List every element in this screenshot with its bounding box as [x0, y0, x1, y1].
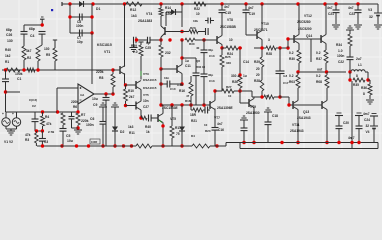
- svg-text:C5: C5: [66, 134, 70, 138]
- svg-text:R40: R40: [5, 48, 11, 52]
- label R13: [189, 42, 200, 50]
- svg-text:3: 3: [268, 38, 270, 42]
- label R3: [25, 133, 31, 142]
- junction zobel out: [348, 70, 351, 73]
- transistor VT9: [249, 99, 254, 108]
- label VT4: [138, 12, 152, 23]
- label R31: [289, 74, 295, 84]
- junction R7 bottom: [76, 126, 79, 129]
- label C20: [343, 121, 349, 125]
- label C24: [363, 112, 370, 122]
- svg-text:Q14: Q14: [306, 34, 312, 38]
- svg-text:C20: C20: [343, 121, 349, 125]
- svg-text:2k7: 2k7: [129, 95, 135, 99]
- junction C5 bottom: [60, 144, 63, 147]
- wire VT11 collector: [297, 110, 299, 143]
- resistor R2 vertical: [36, 48, 40, 62]
- svg-text:R22: R22: [194, 7, 200, 11]
- junction lower base: [287, 103, 290, 106]
- op-amp U1: [78, 84, 94, 104]
- junction em x279: [278, 46, 281, 49]
- label R22: [194, 7, 200, 16]
- resistor R1 vertical: [22, 46, 26, 60]
- wire op-amp +in drop: [56, 88, 58, 112]
- svg-text:10n: 10n: [164, 76, 169, 80]
- junction VT11 bottom: [296, 141, 299, 144]
- label C19: [248, 6, 255, 16]
- resistor R26: [238, 75, 242, 91]
- svg-text:100n: 100n: [76, 24, 83, 28]
- junction D1 anode: [68, 2, 71, 5]
- resistor R31: [296, 72, 300, 101]
- transistor VT1: [120, 66, 125, 75]
- svg-text:+: +: [2, 112, 4, 116]
- label R21: [190, 113, 197, 123]
- capacitor C9: [103, 94, 110, 146]
- resistor R21: [193, 108, 203, 112]
- svg-text:2SC5200: 2SC5200: [298, 27, 312, 31]
- junction comp left: [135, 38, 138, 41]
- wire D3 right leg: [181, 4, 183, 27]
- label V4: [366, 124, 370, 134]
- label R6: [71, 100, 78, 109]
- label V3: [368, 8, 373, 19]
- svg-text:232: 232: [165, 51, 171, 55]
- junction C9 top: [104, 92, 107, 95]
- label R12: [130, 8, 137, 18]
- junction row105 x204: [202, 103, 205, 106]
- label VT3: [143, 72, 157, 82]
- svg-text:4n7: 4n7: [217, 122, 223, 126]
- wire left input drop: [5, 70, 7, 79]
- label R20: [190, 19, 198, 30]
- svg-text:75: 75: [176, 132, 180, 136]
- label 27B: [48, 130, 55, 134]
- svg-text:D1: D1: [96, 7, 100, 11]
- capacitor C15: [219, 4, 226, 36]
- junction rail x123: [122, 144, 125, 147]
- svg-text:1u: 1u: [185, 59, 189, 63]
- svg-text:40: 40: [196, 46, 200, 50]
- label R25: [225, 55, 231, 65]
- label R28b: [266, 94, 268, 98]
- wire R15 lower column: [160, 69, 162, 105]
- svg-text:2u7: 2u7: [356, 57, 362, 61]
- junction mid x240: [238, 89, 241, 92]
- label R15: [165, 51, 171, 55]
- label C26: [6, 28, 13, 43]
- wire R6 bottom: [62, 131, 64, 146]
- svg-text:C25: C25: [145, 46, 151, 50]
- junction comp x161: [159, 38, 162, 41]
- wire col C lower: [54, 61, 56, 70]
- svg-text:2SA1930: 2SA1930: [246, 111, 260, 115]
- wire top node row: [24, 24, 42, 26]
- label C7: [77, 36, 83, 44]
- battery V3: [374, 13, 382, 29]
- svg-text:R14: R14: [165, 6, 171, 10]
- svg-text:2SA1383: 2SA1383: [138, 19, 152, 23]
- wire emitter row: [222, 47, 288, 49]
- junction out x326: [325, 70, 328, 73]
- svg-text:R25: R25: [225, 55, 231, 59]
- svg-text:C6: C6: [90, 117, 94, 121]
- resistor R33: [297, 44, 301, 73]
- svg-text:R03: R03: [289, 80, 295, 84]
- wire upper base row: [288, 38, 322, 40]
- capacitor C2: [32, 112, 39, 131]
- label VT11: [290, 123, 304, 133]
- svg-text:KSA1015: KSA1015: [143, 86, 157, 90]
- svg-text:R29: R29: [254, 60, 260, 64]
- wire zobel drop: [349, 72, 351, 80]
- svg-text:330: 330: [226, 61, 231, 65]
- resistor R6: [61, 113, 65, 125]
- label D2: [120, 130, 124, 134]
- junction rail C23: [356, 2, 359, 5]
- svg-text:R39: R39: [131, 44, 137, 48]
- svg-text:47: 47: [186, 94, 190, 98]
- junction R29 bottom: [260, 95, 263, 98]
- svg-text:10p: 10p: [77, 40, 83, 44]
- resistor R25: [220, 48, 224, 91]
- label box 100n: [90, 139, 100, 144]
- svg-text:R30: R30: [189, 42, 195, 46]
- svg-text:R3: R3: [25, 138, 29, 142]
- resistor R29: [260, 48, 264, 97]
- svg-text:4n7: 4n7: [248, 6, 254, 10]
- label C14: [243, 60, 249, 64]
- label C10: [164, 76, 176, 91]
- svg-text:C16: C16: [218, 128, 224, 132]
- svg-text:C18: C18: [272, 114, 278, 118]
- label V1V2: [4, 140, 13, 144]
- wire VT8 base: [204, 39, 217, 41]
- junction rail D3: [180, 2, 183, 5]
- junction R35 right: [366, 78, 369, 81]
- junction VT8 emitter: [220, 46, 223, 49]
- wire VT6 emitter: [162, 123, 164, 147]
- svg-text:47k: 47k: [46, 122, 52, 126]
- label R36: [361, 86, 367, 96]
- svg-text:130: 130: [44, 47, 50, 51]
- wire D3 left leg: [165, 12, 167, 26]
- label D1: [96, 7, 100, 11]
- svg-text:R40: R40: [145, 125, 151, 129]
- wire C10 row: [161, 83, 182, 85]
- resistor R27: [222, 89, 234, 93]
- svg-text:KSA1015: KSA1015: [143, 78, 157, 82]
- wire VT1 base: [113, 69, 120, 71]
- svg-text:68p: 68p: [29, 27, 35, 31]
- junction comp x172: [168, 38, 171, 41]
- svg-text:Q13: Q13: [303, 110, 309, 114]
- junction minus row x57: [56, 110, 59, 113]
- label C16: [214, 116, 224, 132]
- capacitor C18: [264, 108, 272, 143]
- label R28: [266, 38, 272, 56]
- wire top positive rail: [62, 4, 378, 13]
- junction left col mid: [4, 90, 7, 93]
- svg-text:100n: 100n: [337, 54, 344, 58]
- svg-text:Q6: Q6: [196, 59, 200, 63]
- wire op-amp out row: [94, 93, 113, 95]
- svg-text:C21: C21: [328, 12, 334, 16]
- wire op-amp -in drop: [77, 104, 79, 112]
- diode D3: [166, 9, 182, 15]
- capacitor C21: [332, 4, 340, 29]
- capacitor C19: [243, 4, 250, 35]
- capacitor C25a: [130, 37, 138, 52]
- wire output rail: [298, 71, 346, 73]
- resistor R39: [139, 42, 144, 80]
- svg-text:4n7: 4n7: [327, 6, 333, 10]
- junction row105 x161: [159, 103, 162, 106]
- junction input row x36: [41, 110, 44, 113]
- svg-text:10n: 10n: [143, 99, 149, 103]
- svg-text:C1: C1: [17, 77, 21, 81]
- capacitor C13: [201, 40, 208, 105]
- junction D2 bottom: [113, 144, 116, 147]
- svg-text:R30: R30: [289, 57, 295, 61]
- svg-text:2SC1583B: 2SC1583B: [220, 25, 237, 29]
- capacitor C13s: [203, 107, 210, 114]
- label C22: [337, 54, 344, 64]
- capacitor C12b: [205, 18, 214, 24]
- wire source bottoms: [6, 126, 17, 129]
- transistor VT7: [210, 101, 215, 110]
- svg-text:8: 8: [356, 74, 358, 78]
- svg-text:C13: C13: [209, 79, 215, 83]
- capacitor C20: [335, 113, 343, 143]
- svg-text:R28: R28: [254, 79, 260, 83]
- svg-text:C24: C24: [364, 118, 370, 122]
- svg-text:R16: R16: [179, 89, 185, 93]
- svg-text:8: 8: [363, 92, 365, 96]
- source V2: [12, 112, 21, 126]
- svg-text:R4: R4: [45, 115, 49, 119]
- wire L1 right: [365, 72, 368, 80]
- junction minus row x78: [76, 110, 79, 113]
- junction rail C15: [220, 2, 223, 5]
- wire VT12 collector: [298, 4, 300, 35]
- svg-text:R2: R2: [27, 56, 31, 60]
- label VT10: [254, 22, 269, 32]
- junction rail x88: [87, 144, 90, 147]
- wire VT5 emitter: [140, 110, 142, 118]
- label R33: [289, 51, 295, 61]
- svg-text:330: 330: [231, 74, 237, 78]
- svg-text:100R: 100R: [91, 140, 97, 144]
- svg-text:20: 20: [256, 67, 260, 71]
- junction R26 top: [238, 73, 241, 76]
- svg-text:D2: D2: [120, 130, 124, 134]
- wire VT10 base: [246, 34, 257, 36]
- wire col A upper: [23, 25, 25, 32]
- junction left col top: [4, 68, 7, 71]
- label C1: [15, 72, 23, 81]
- junction rail Q14 collector: [323, 2, 326, 5]
- resistor R1: [6, 68, 20, 72]
- label R2v: [26, 49, 32, 60]
- svg-text:1k2: 1k2: [5, 54, 11, 58]
- wire mid row: [215, 91, 280, 97]
- junction C16 bottom: [215, 144, 218, 147]
- wire filter bottom row: [70, 32, 92, 34]
- wire VT3-VT5 link: [140, 90, 142, 102]
- junction C10 left: [159, 82, 162, 85]
- ground sources: [7, 129, 15, 135]
- label C25: [145, 41, 151, 50]
- wire VT9 emitter: [253, 108, 255, 143]
- resistor R4: [41, 112, 45, 131]
- wire input bottom row: [35, 130, 44, 132]
- junction VT2 base: [159, 67, 162, 70]
- capacitor C22: [347, 57, 354, 72]
- emitter arrow VT6: [159, 120, 162, 123]
- label R11: [128, 125, 135, 135]
- junction C17 bottom: [242, 141, 245, 144]
- wire VT2 base: [161, 68, 177, 70]
- svg-text:R11: R11: [129, 131, 135, 135]
- svg-text:2SC5280: 2SC5280: [297, 20, 311, 24]
- wire col B lower: [37, 61, 39, 70]
- svg-text:4n7: 4n7: [348, 6, 354, 10]
- wire lower base row: [289, 104, 322, 106]
- svg-text:C10: C10: [170, 87, 176, 91]
- label C21: [327, 6, 334, 16]
- junction VT6 emitter mid: [161, 124, 164, 127]
- resistor R40: [141, 115, 158, 122]
- junction em x288: [286, 46, 289, 49]
- resistor R15: [159, 40, 163, 69]
- wire op-amp supply drop: [91, 33, 93, 84]
- resistor R11: [136, 144, 152, 148]
- wire col A mid: [23, 34, 25, 46]
- label VT6: [162, 106, 179, 110]
- junction Q13 bottom: [325, 141, 328, 144]
- resistor R34: [348, 30, 352, 57]
- label Q14: [298, 27, 312, 38]
- junction input bot x44: [41, 129, 44, 132]
- label Q13: [297, 110, 311, 120]
- label C23: [348, 6, 355, 16]
- junction input bot x36: [35, 129, 38, 132]
- label L1: [356, 57, 362, 67]
- svg-text:C23: C23: [349, 12, 355, 16]
- label R8: [96, 70, 104, 80]
- svg-text:R30 40: R30 40: [196, 65, 205, 69]
- svg-text:47k: 47k: [25, 133, 31, 137]
- green wire segment: [140, 71, 142, 76]
- svg-text:130: 130: [7, 39, 13, 43]
- svg-text:10u: 10u: [92, 97, 98, 101]
- resistor R3: [35, 131, 39, 146]
- ground zobel: [346, 26, 354, 30]
- label R24: [227, 38, 233, 56]
- junction em x262: [260, 46, 263, 49]
- transistor Q14: [321, 35, 326, 44]
- svg-text:1u: 1u: [243, 74, 247, 78]
- label C6: [86, 117, 94, 127]
- wire VT4 collector: [160, 22, 162, 27]
- svg-text:+: +: [12, 112, 14, 116]
- transistor VT4: [161, 26, 165, 37]
- junction C24 bottom: [357, 141, 360, 144]
- junction row68 colB: [36, 68, 39, 71]
- svg-text:1.8k: 1.8k: [177, 83, 184, 87]
- junction D1 cathode: [91, 2, 94, 5]
- wire upper base riser: [287, 39, 289, 48]
- wire lower base feed: [280, 97, 289, 105]
- svg-text:C19: C19: [249, 12, 255, 16]
- wire C28 join: [72, 127, 79, 129]
- source V1: [2, 112, 10, 126]
- svg-text:32: 32: [369, 15, 373, 19]
- resistor R10: [124, 85, 128, 106]
- svg-text:V1 V2: V1 V2: [4, 140, 13, 144]
- junction filter mid right: [90, 15, 93, 18]
- svg-text:4m7: 4m7: [348, 136, 355, 140]
- capacitor C10: [167, 81, 170, 88]
- junction D5 bottom: [180, 144, 183, 147]
- label C13: [196, 48, 215, 83]
- label R39: [131, 44, 138, 54]
- label R16: [177, 83, 185, 93]
- svg-text:18R: 18R: [190, 113, 197, 117]
- resistor R28b: [264, 95, 274, 99]
- capacitor C1: [2, 79, 9, 82]
- svg-text:4m7: 4m7: [363, 112, 370, 116]
- junction rail C19: [244, 2, 247, 5]
- inductor L1: [351, 70, 365, 72]
- wire load feed: [368, 80, 370, 84]
- resistor R36: [368, 84, 372, 99]
- wire minus row: [57, 111, 78, 113]
- junction C6 bottom: [101, 144, 104, 147]
- junction rail x131: [130, 144, 133, 147]
- svg-text:R36: R36: [361, 86, 367, 90]
- svg-text:C27: C27: [143, 105, 149, 109]
- junction comp x204: [202, 38, 205, 41]
- transistor VT8: [217, 36, 222, 45]
- wire filter mid row: [70, 16, 92, 18]
- wire input row: [6, 111, 57, 113]
- battery V4: [370, 114, 378, 143]
- wire comp row: [136, 39, 161, 41]
- label VT1: [97, 43, 112, 54]
- label R14: [165, 6, 172, 16]
- transistor VT2: [177, 65, 182, 74]
- capacitor C28: [69, 112, 75, 128]
- label VT5b: [170, 117, 176, 121]
- svg-text:2SA1306E: 2SA1306E: [217, 106, 234, 110]
- junction C20 bottom: [337, 141, 340, 144]
- label R27: [226, 85, 232, 98]
- junction row105 x191: [189, 103, 192, 106]
- wire VT9 base feed: [240, 91, 249, 103]
- resistor R28: [266, 46, 276, 50]
- svg-text:2.0: 2.0: [133, 50, 138, 54]
- wire Q13 collector: [326, 110, 328, 143]
- svg-text:100k: 100k: [15, 72, 23, 76]
- label VT12: [297, 14, 312, 24]
- svg-text:C11: C11: [185, 64, 191, 68]
- svg-text:R08: R08: [316, 80, 322, 84]
- wire filter left leg: [69, 4, 71, 33]
- junction R35 left: [348, 78, 351, 81]
- svg-text:10k: 10k: [193, 19, 198, 23]
